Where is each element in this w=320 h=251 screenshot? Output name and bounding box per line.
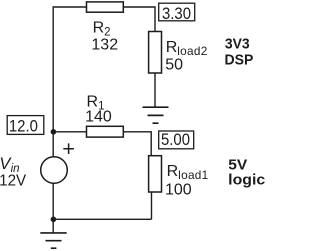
svg-text:12V: 12V	[0, 172, 26, 189]
ground (bottom left)	[40, 233, 66, 248]
wire top rail right with corner down to Rload2	[123, 7, 155, 32]
junction node dot at bottom rail	[51, 217, 57, 223]
svg-text:50: 50	[165, 56, 183, 73]
svg-text:140: 140	[85, 108, 112, 125]
svg-text:100: 100	[165, 181, 192, 198]
wire R1 right with corner down to Rload1	[123, 132, 151, 156]
svg-text:Rload2: Rload2	[166, 39, 208, 58]
resistor Rload2	[149, 32, 162, 74]
plus sign of source	[63, 143, 74, 154]
resistor Rload1	[149, 156, 162, 192]
svg-text:Rload1: Rload1	[167, 163, 209, 182]
wire Rload2 to ground	[154, 73, 156, 107]
wire bottom junction to ground	[52, 219, 54, 233]
node box 3.30	[159, 3, 195, 21]
resistor R2	[87, 2, 124, 12]
svg-text:3.30: 3.30	[162, 5, 191, 23]
svg-text:DSP: DSP	[225, 51, 254, 68]
node box 5.00	[159, 131, 194, 149]
wire left rail junction down to source	[52, 131, 54, 157]
resistor R1	[87, 126, 124, 137]
wire bottom rail	[53, 218, 151, 220]
wire Rload1 down to bottom rail	[151, 192, 153, 219]
svg-text:logic: logic	[228, 172, 265, 189]
svg-text:12.0: 12.0	[9, 117, 38, 135]
wire top rail left and left vertical rail	[53, 7, 86, 131]
wire source bottom to bottom junction	[52, 183, 54, 219]
svg-text:3V3: 3V3	[225, 35, 250, 52]
svg-text:5.00: 5.00	[161, 131, 190, 149]
ground (top right, below Rload2)	[143, 107, 169, 123]
junction node dot at 12.0 tap	[51, 129, 57, 135]
node box 12.0	[7, 116, 44, 135]
voltage source Vin circle	[41, 157, 68, 184]
svg-text:132: 132	[91, 37, 118, 54]
wire middle rail from junction to R1	[53, 131, 86, 133]
